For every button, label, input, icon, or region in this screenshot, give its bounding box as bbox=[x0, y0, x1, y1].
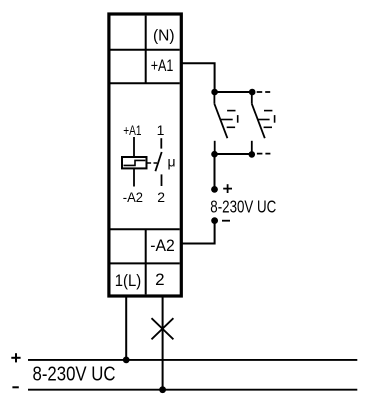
pushbutton S2 bottom stub bbox=[251, 141, 253, 154]
svg-text:μ: μ bbox=[168, 153, 176, 169]
coil K1 (impulse relay coil) bbox=[122, 157, 147, 168]
node plus supply bbox=[211, 186, 218, 193]
svg-text:+A1: +A1 bbox=[123, 122, 141, 138]
node on plus line bbox=[123, 357, 130, 364]
mechanical link dashed line bbox=[148, 162, 159, 164]
node on minus line bbox=[159, 386, 166, 393]
terminal grid horizontal divider row4/row5 bbox=[111, 262, 180, 264]
svg-text:1: 1 bbox=[157, 122, 165, 138]
wire terminal 2 down to neutral line bbox=[162, 296, 164, 390]
coil step symbol bbox=[124, 160, 146, 165]
minus sign bottom-left bbox=[12, 386, 18, 388]
node top-left bbox=[211, 89, 218, 96]
wire 1(L) down to phase line bbox=[125, 296, 127, 360]
wire minus to -A2 bbox=[181, 221, 214, 244]
terminal grid vertical divider (bottom rows) bbox=[145, 229, 147, 294]
node bottom-left bbox=[211, 151, 218, 158]
svg-text:1(L): 1(L) bbox=[115, 271, 141, 290]
contact blade bbox=[155, 152, 161, 171]
plus sign bottom-left bbox=[11, 353, 20, 362]
lamp load X symbol bbox=[152, 318, 174, 339]
svg-text:2: 2 bbox=[157, 189, 165, 205]
supply line plus bbox=[28, 359, 357, 361]
svg-text:+A1: +A1 bbox=[151, 56, 174, 75]
wire top bus between buttons bbox=[215, 91, 253, 93]
terminal grid horizontal divider row1/row2 bbox=[111, 49, 180, 51]
pushbutton S1 blade bbox=[214, 104, 227, 138]
wire +A1 to pushbuttons bbox=[181, 63, 214, 92]
svg-text:(N): (N) bbox=[153, 27, 175, 44]
terminal grid horizontal divider row2/middle bbox=[111, 82, 180, 84]
pushbutton S1 top stub bbox=[213, 92, 215, 104]
svg-text:8-230V UC: 8-230V UC bbox=[33, 363, 116, 386]
minus sign right bbox=[222, 220, 230, 222]
pushbutton S1 bottom stub bbox=[214, 141, 216, 154]
terminal grid horizontal divider middle/row4 bbox=[111, 228, 180, 230]
node minus supply bbox=[211, 217, 218, 224]
pushbutton S1 actuator dashes bbox=[221, 111, 238, 128]
pushbutton S2 top stub bbox=[251, 92, 253, 104]
node bottom-right bbox=[249, 151, 256, 158]
supply line minus bbox=[28, 389, 357, 391]
continuation dashes top bbox=[257, 91, 271, 93]
svg-text:-A2: -A2 bbox=[123, 189, 143, 205]
node top-right bbox=[249, 89, 256, 96]
contact bottom stub bbox=[161, 174, 163, 186]
terminal grid vertical divider (top rows) bbox=[145, 16, 147, 84]
continuation dashes bottom bbox=[257, 153, 271, 155]
plus sign right bbox=[223, 184, 232, 193]
pushbutton S2 blade bbox=[252, 104, 265, 138]
svg-text:-A2: -A2 bbox=[150, 236, 175, 255]
contact top stub bbox=[160, 138, 162, 148]
wire bottom bus between buttons bbox=[215, 153, 252, 155]
internal coil top wire bbox=[133, 137, 135, 157]
wire buttons to + terminal bbox=[214, 154, 216, 189]
internal coil bottom wire bbox=[133, 169, 135, 187]
pushbutton S2 actuator dashes bbox=[258, 111, 275, 128]
device outline (relay module) bbox=[109, 14, 181, 296]
svg-text:8-230V UC: 8-230V UC bbox=[210, 197, 276, 217]
svg-text:2: 2 bbox=[155, 270, 164, 289]
